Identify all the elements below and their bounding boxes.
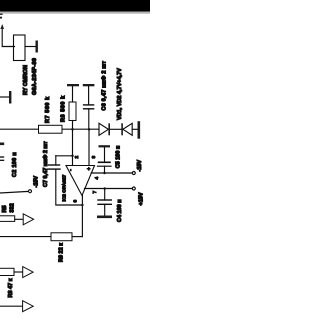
svg-text:C7 0,47 мкФ 2 шт: C7 0,47 мкФ 2 шт (43, 141, 49, 187)
junction (feedback / output) (81, 204, 84, 207)
diode VD2 (121, 123, 132, 135)
diode VD1 (99, 123, 110, 135)
junction (C4 / rail) (103, 187, 106, 190)
svg-text:G8A-234P-80: G8A-234P-80 (32, 58, 38, 95)
svg-text:-15V: -15V (137, 160, 143, 172)
svg-text:+: + (87, 167, 93, 170)
svg-text:3: 3 (91, 156, 97, 159)
svg-text:C4 100 н: C4 100 н (117, 199, 123, 222)
wire (R8 bottom to node) (72, 121, 74, 130)
wire (pin 7 stub to +15V rail) (85, 188, 133, 190)
terminal bar (relay contact) (36, 41, 38, 53)
terminal bar (diode chain) (138, 121, 141, 139)
scan border band top (0, 0, 150, 14)
wire (feedback, C7 bottom to output) (56, 170, 83, 205)
resistor R9 (51, 233, 72, 241)
wire (R5 to arrow) (15, 218, 24, 220)
wire (-15V left rail) (0, 191, 28, 193)
wire (R9 to output corner) (72, 236, 82, 238)
node arrow up (0, 24, 4, 29)
svg-text:332: 332 (9, 203, 15, 212)
svg-text:2: 2 (74, 156, 80, 159)
svg-text:C6 0,47 мкФ 2 шт: C6 0,47 мкФ 2 шт (102, 61, 108, 111)
wire A (main horizontal net) (0, 128, 99, 130)
terminal bar (R8 top) (67, 84, 79, 86)
svg-text:4: 4 (94, 177, 100, 180)
wire (left terminal) (0, 96, 9, 98)
wire (pin 3 vertical) (88, 129, 90, 165)
resistor R7 (39, 125, 63, 133)
terminal bar (C6 top) (83, 84, 95, 86)
relay RY coil (14, 35, 26, 61)
terminal bar (left) (9, 91, 11, 104)
wire (relay to contact bar) (25, 46, 36, 48)
node -15V right (open circle) (132, 172, 135, 175)
wire (bottom row) (0, 305, 23, 307)
resistor R8 (69, 102, 76, 121)
junction (C5 / rail) (103, 172, 106, 175)
node arrow (to next stage, R5 row) (23, 214, 33, 225)
wire (output pin 6 down) (81, 196, 83, 237)
svg-text:6: 6 (73, 200, 79, 203)
svg-text:+15V: +15V (139, 192, 145, 205)
wire (VD2 to terminal) (132, 128, 137, 130)
capacitor C2 (cut at edge) (0, 143, 4, 161)
svg-text:IC2 OPA627: IC2 OPA627 (61, 174, 67, 201)
node +15V right (open circle) (132, 187, 135, 190)
capacitor C7 (48, 156, 73, 169)
svg-text:RY OMRON: RY OMRON (23, 65, 29, 95)
svg-text:VD1, VD2 4,7V+4,7V: VD1, VD2 4,7V+4,7V (117, 68, 123, 120)
wire (between diodes) (110, 128, 121, 130)
wire (pin 4 stub to -15V rail) (91, 172, 132, 174)
svg-text:7: 7 (92, 191, 98, 194)
node -15V left (open circle) (29, 190, 32, 193)
node arrow (R3 row) (23, 267, 33, 278)
wire (R9 net from edge) (0, 236, 51, 238)
capacitor C4 (97, 189, 112, 219)
svg-text:R3 47 к: R3 47 к (8, 278, 14, 297)
wire (pin 2 vertical) (72, 129, 74, 165)
wire (R8 top stem) (72, 86, 74, 102)
svg-text:R7 560 k: R7 560 k (45, 96, 51, 123)
junction (C6,pin3 / wire A) (88, 128, 91, 131)
wire (supply arrow to relay coil) (2, 27, 14, 47)
svg-text:-15V: -15V (34, 176, 40, 188)
resistor R3 (cut at edge) (0, 268, 14, 275)
svg-text:C5 100 н: C5 100 н (116, 146, 122, 169)
junction (R8 / wire A) (71, 128, 74, 131)
capacitor C5 (98, 145, 112, 173)
node +15V (relay supply) (0, 14, 3, 19)
svg-text:R5: R5 (2, 205, 8, 212)
junction (C7 / pin2 wire) (71, 155, 74, 158)
svg-text:C2 100 н: C2 100 н (12, 152, 18, 177)
capacitor C6 (84, 86, 94, 129)
resistor R5 (cut at edge) (0, 216, 15, 222)
op-amp IC2 triangle (66, 166, 95, 196)
wire (R3 to arrow) (14, 271, 23, 273)
node arrow (bottom row) (23, 301, 34, 312)
svg-text:R8 560 k: R8 560 k (61, 95, 67, 122)
svg-text:R9 22 к: R9 22 к (58, 243, 64, 262)
